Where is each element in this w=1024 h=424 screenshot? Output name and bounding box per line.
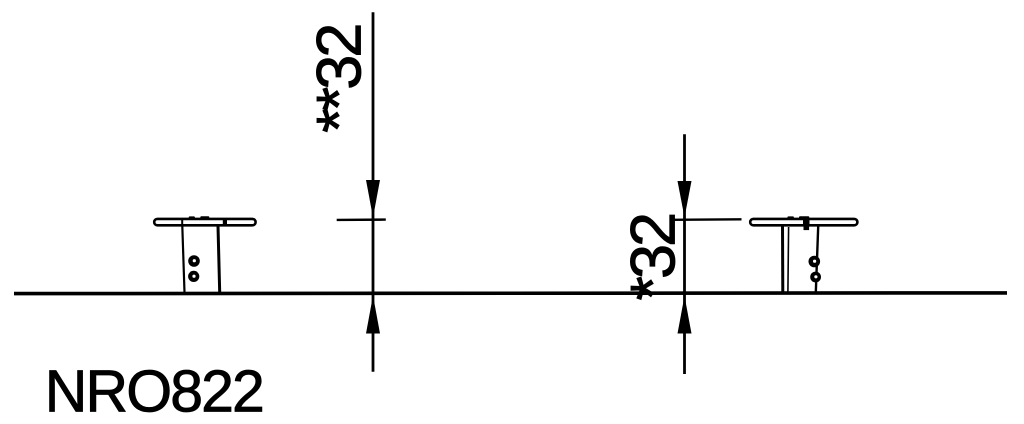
left pedestal bolt 2 <box>188 271 199 282</box>
left seat plank divider 2 (thick) <box>223 218 227 226</box>
right seat plank divider (thick) <box>803 218 810 226</box>
left seat top <box>154 219 255 225</box>
left seat screw bumps on top <box>189 216 210 219</box>
right pedestal bolt 1 <box>809 256 821 268</box>
dimension 2 tick (extension line at seat top level) <box>672 218 742 221</box>
dimension 1 up arrowhead (below ground) <box>366 296 380 334</box>
right seat under-bracket <box>804 226 810 231</box>
svg-text:**32: **32 <box>304 26 374 133</box>
svg-text:*32: *32 <box>618 215 688 301</box>
dimension 1 down arrowhead <box>366 180 380 218</box>
dimension 2 vertical line <box>683 134 686 374</box>
dimension 2 down arrowhead <box>678 181 692 218</box>
left pedestal left edge <box>182 226 184 293</box>
right pedestal left edge outer <box>781 227 784 293</box>
left seat plank divider 1 <box>181 219 183 227</box>
right seat screw bumps on top <box>787 216 809 219</box>
dimension 1 vertical line <box>372 12 375 372</box>
svg-text:NRO822: NRO822 <box>45 358 263 424</box>
right pedestal bolt 2 <box>810 272 821 283</box>
dimension 2 up arrowhead (below ground) <box>678 296 692 334</box>
ground line <box>14 291 1007 295</box>
right seat top <box>750 219 857 225</box>
right pedestal left edge inner <box>787 227 790 292</box>
left pedestal right edge <box>218 226 220 293</box>
dimension 1 tick (extension line at seat top level) <box>337 218 386 221</box>
right pedestal right edge <box>816 227 818 293</box>
left pedestal bolt 1 <box>188 255 200 267</box>
